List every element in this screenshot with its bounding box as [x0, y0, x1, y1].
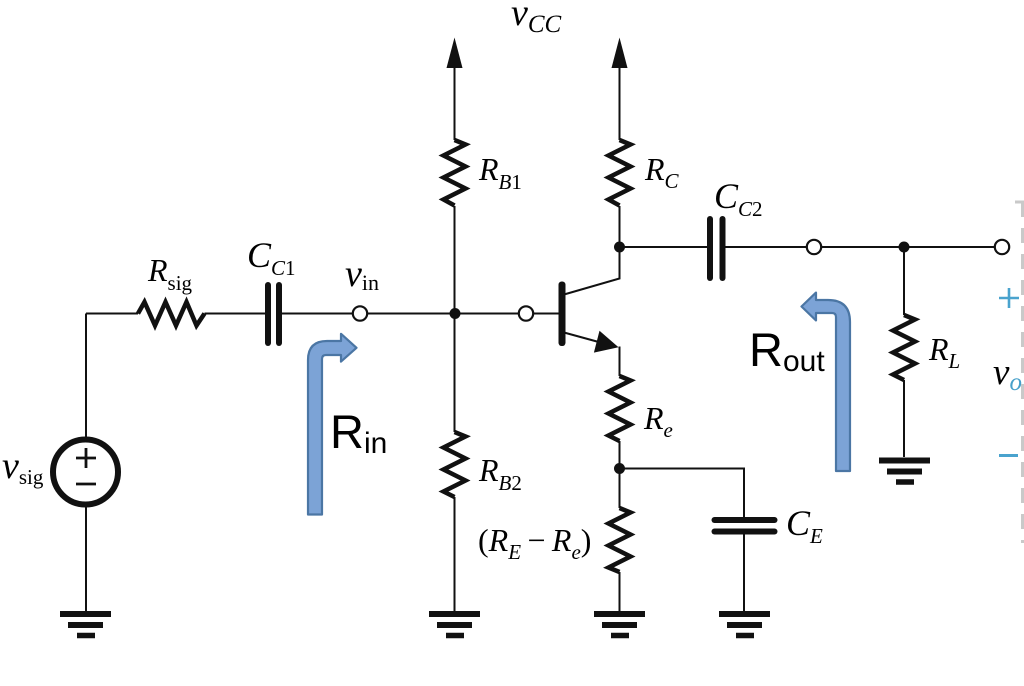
ground (emitter branch) — [594, 614, 645, 636]
wire: output terminal to RL node — [822, 246, 995, 248]
source vsig circle — [53, 440, 118, 505]
label plus (output polarity) — [999, 288, 1019, 308]
transistor Q1 base bar — [559, 282, 566, 347]
svg-text:(RE − Re): (RE − Re) — [478, 522, 591, 564]
resistor RL zigzag — [893, 315, 915, 380]
node output open terminal circle — [807, 240, 821, 254]
svg-text:CE: CE — [786, 503, 823, 548]
wire: RB2 to ground — [454, 497, 456, 611]
svg-text:RB2: RB2 — [478, 452, 522, 495]
svg-text:Rsig: Rsig — [147, 252, 193, 295]
wire: RL to ground — [903, 380, 905, 457]
arrow Rout (blue bent arrow) — [802, 293, 851, 471]
transistor Q1 emitter arrowhead — [594, 331, 619, 353]
wire: CE to ground — [743, 534, 745, 611]
wire: emitter node down to (RE-Re) — [619, 469, 621, 509]
svg-text:Rin: Rin — [330, 405, 387, 460]
arrow Rin (blue bent arrow) — [308, 334, 357, 515]
svg-text:Rout: Rout — [749, 323, 825, 378]
wire: terminal to transistor base — [534, 313, 559, 315]
ground (vsig) — [60, 614, 111, 636]
resistor Rsig (horizontal zigzag) — [138, 302, 205, 326]
vsig plus sign — [76, 448, 96, 468]
ground (RL) — [879, 461, 930, 483]
label minus (output polarity) — [999, 454, 1018, 457]
wire: RB2 branch vertical (junction down to resistor) — [454, 314, 456, 433]
node vin open terminal circle — [353, 306, 367, 320]
node collector junction dot — [614, 242, 625, 253]
wire: RC to VCC arrow — [619, 62, 621, 140]
node emitter junction dot — [614, 463, 625, 474]
wire: Re to emitter node — [619, 441, 621, 469]
capacitor CE plates — [715, 520, 775, 532]
svg-text:vCC: vCC — [511, 0, 562, 38]
ground (CE) — [719, 614, 770, 636]
wire: CC1 to vin terminal — [282, 313, 353, 315]
dashed crop edge right — [1015, 202, 1024, 543]
wire: (RE-Re) to ground — [619, 572, 621, 611]
svg-text:vin: vin — [345, 253, 379, 295]
wire: vsig to ground — [85, 505, 87, 611]
wire: RB1 branch vertical (junction up to resistor) — [454, 206, 456, 314]
VCC arrowhead left supply — [447, 38, 463, 69]
resistor RB1 zigzag — [444, 140, 466, 206]
svg-text:CC1: CC1 — [247, 235, 296, 280]
node B junction dot — [450, 308, 461, 319]
wire: emitter down to Re — [619, 347, 621, 377]
svg-text:Re: Re — [643, 400, 673, 442]
wire: vin terminal to base junction — [368, 313, 519, 315]
svg-text:vo: vo — [993, 352, 1022, 396]
capacitor CC1 plates — [268, 285, 279, 343]
svg-text:RB1: RB1 — [478, 151, 522, 194]
svg-text:RL: RL — [928, 331, 960, 373]
resistor Re zigzag — [609, 376, 631, 441]
wire: main input line left segment — [86, 313, 138, 315]
node base open terminal circle — [519, 306, 533, 320]
svg-text:CC2: CC2 — [714, 176, 763, 221]
vsig minus sign — [76, 483, 96, 486]
node RL junction dot — [899, 242, 910, 253]
transistor Q1 collector lead — [564, 247, 620, 295]
wire: Rsig to CC1 — [205, 313, 266, 315]
wire: vsig branch vertical top — [85, 314, 87, 440]
transistor Q1 emitter lead — [564, 333, 606, 345]
resistor RB2 zigzag — [444, 432, 466, 497]
ground (RB2) — [429, 614, 480, 636]
capacitor CC2 plates — [710, 219, 723, 278]
wire: emitter node to CE branch — [620, 469, 745, 518]
node far-right open terminal circle — [995, 240, 1009, 254]
wire: RC branch vertical above collector node — [619, 206, 621, 247]
resistor (RE-Re) zigzag — [609, 508, 631, 572]
wire: CC2 to output terminal — [726, 246, 807, 248]
wire: collector node to CC2 — [620, 246, 708, 248]
resistor RC zigzag — [609, 140, 631, 206]
wire: RL branch vertical — [903, 247, 905, 315]
wire: RB1 to VCC arrow — [454, 62, 456, 140]
VCC arrowhead right supply — [612, 38, 628, 69]
svg-text:RC: RC — [644, 151, 680, 193]
svg-text:vsig: vsig — [2, 445, 44, 489]
